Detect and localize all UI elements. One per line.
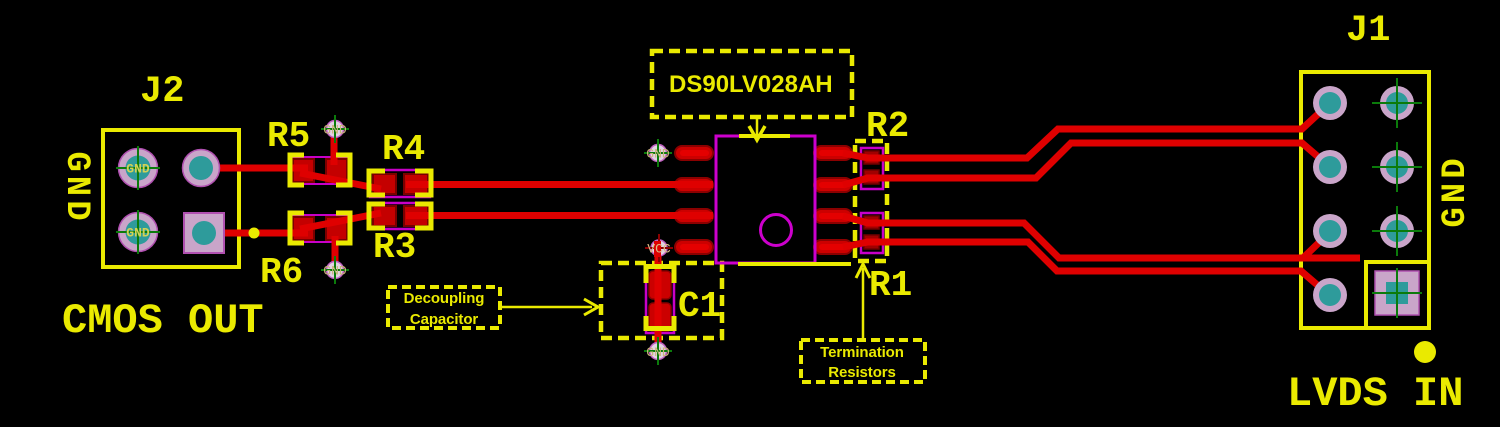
svg-text:R1: R1 [869,265,912,306]
svg-text:Termination: Termination [820,344,904,361]
svg-text:GND: GND [323,123,347,138]
svg-text:GND: GND [646,345,670,360]
svg-text:DS90LV028AH: DS90LV028AH [669,71,833,98]
svg-text:GND: GND [57,151,95,224]
svg-text:J1: J1 [1346,10,1390,52]
svg-text:GND: GND [126,162,150,177]
svg-text:GND: GND [126,226,150,241]
svg-text:R5: R5 [267,116,310,157]
svg-text:Capacitor: Capacitor [410,311,479,328]
svg-text:CMOS OUT: CMOS OUT [62,297,264,345]
svg-text:GND: GND [1437,154,1475,227]
svg-text:R2: R2 [866,106,909,147]
svg-text:GND: GND [646,147,670,162]
svg-text:R6: R6 [260,252,303,293]
svg-text:J2: J2 [140,71,184,113]
svg-text:Resistors: Resistors [828,364,895,381]
svg-text:Decoupling: Decoupling [404,290,485,307]
svg-text:C1: C1 [678,286,721,327]
svg-text:GND: GND [323,264,347,279]
svg-text:VCC: VCC [647,242,671,257]
svg-text:LVDS IN: LVDS IN [1287,370,1463,418]
svg-text:R3: R3 [373,227,416,268]
svg-text:R4: R4 [382,129,425,170]
